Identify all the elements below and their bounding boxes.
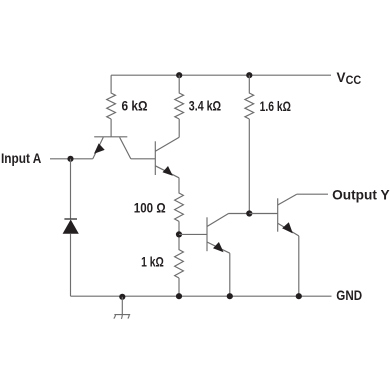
svg-text:GND: GND <box>336 287 362 303</box>
resistor 3.4 kΩ <box>175 75 184 137</box>
transistor Q2 <box>155 137 179 178</box>
wire VCC rail <box>111 74 331 76</box>
wire Q3 collector to node <box>229 213 250 215</box>
svg-text:Output Y: Output Y <box>332 186 390 202</box>
transistor Q4 <box>278 194 299 236</box>
diode D1 (input clamp) <box>63 219 79 234</box>
wire node to Q4 base <box>249 213 277 215</box>
wire diode to GND rail <box>70 234 72 296</box>
resistor 1.6 kΩ <box>245 75 254 213</box>
wire output Y <box>297 193 328 195</box>
wire junction to Q3 base <box>179 233 207 235</box>
svg-text:CC: CC <box>346 73 362 87</box>
wire input A <box>50 158 93 160</box>
svg-text:100 Ω: 100 Ω <box>134 200 166 216</box>
junction VCC-1.6 kΩ <box>246 72 252 78</box>
junction VCC-3.4 kΩ <box>176 72 182 78</box>
junction Q4 emitter-GND <box>296 293 302 299</box>
wire Q3 emitter to GND <box>229 253 231 296</box>
wire Q4 emitter to GND <box>298 236 300 296</box>
transistor Q1 <box>93 137 131 159</box>
junction node (100 Ω / 1 kΩ / Q3 base) <box>176 231 182 237</box>
resistor 1 kΩ <box>175 234 184 296</box>
junction node (1.6 kΩ / Q3 collector / Q4 base) <box>246 210 252 216</box>
svg-text:V: V <box>337 70 346 85</box>
svg-text:3.4 kΩ: 3.4 kΩ <box>189 98 221 114</box>
svg-text:1 kΩ: 1 kΩ <box>141 253 164 269</box>
svg-text:6 kΩ: 6 kΩ <box>122 97 148 113</box>
transistor Q3 <box>207 214 230 254</box>
junction Q3 emitter-GND <box>227 293 233 299</box>
resistor 6 kΩ <box>107 75 116 137</box>
svg-text:Input A: Input A <box>1 150 41 166</box>
junction 1 kΩ-GND <box>176 293 182 299</box>
wire GND rail <box>71 295 332 297</box>
junction GND-symbol node <box>119 294 125 300</box>
junction input node <box>67 156 73 162</box>
ground <box>114 297 130 319</box>
wire input node to diode <box>70 159 72 219</box>
wire Q1 collector to Q2 base <box>131 158 156 160</box>
svg-text:1.6 kΩ: 1.6 kΩ <box>260 98 291 114</box>
resistor 100 Ω <box>175 178 184 235</box>
